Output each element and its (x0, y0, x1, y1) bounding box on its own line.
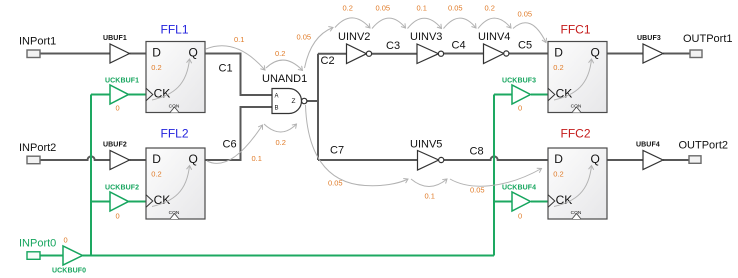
svg-text:0.1: 0.1 (425, 192, 435, 201)
svg-text:0.05: 0.05 (297, 32, 312, 41)
svg-text:C5: C5 (518, 40, 532, 52)
wire net C8: UINV5 to FFC2.D (hop over clock line) (444, 156, 548, 160)
svg-text:0.05: 0.05 (518, 10, 533, 19)
svg-text:UNAND1: UNAND1 (262, 73, 307, 85)
flip-flop FFC1 (548, 42, 607, 113)
svg-text:0.1: 0.1 (417, 4, 427, 13)
svg-text:INPort1: INPort1 (19, 36, 56, 48)
inverter UINV2 (347, 44, 367, 64)
svg-text:0.05: 0.05 (470, 186, 485, 195)
svg-text:UCKBUF4: UCKBUF4 (502, 185, 536, 192)
buffer UBUF1 (110, 44, 130, 63)
clock buffer UCKBUF0 (63, 246, 83, 265)
wire net C6: FFL2.Q to UNAND1.B (205, 107, 272, 160)
wire UCKBUF3 to FFC1.CK (531, 94, 548, 96)
svg-text:FFC1: FFC1 (561, 23, 591, 37)
svg-text:0.05: 0.05 (328, 179, 343, 188)
wire net C3: UINV2 to UINV3 (372, 53, 418, 55)
flip-flop FFC2 (548, 148, 607, 219)
svg-text:0: 0 (518, 104, 522, 113)
svg-text:FFC2: FFC2 (561, 127, 591, 141)
svg-text:0.2: 0.2 (485, 4, 495, 13)
timing arc 0.05 net C8 to FFC2.D (450, 169, 542, 187)
wire clock tap to UCKBUF2 (91, 201, 110, 203)
svg-text:C4: C4 (452, 40, 466, 52)
wire UCKBUF1 to FFL1.CK (129, 94, 147, 96)
timing arc 0.1 FFL2.Q to UNAND1.B (207, 125, 263, 163)
timing arc 0.2 UINV2 delay (335, 18, 370, 28)
wire net C1: FFL1.Q to UNAND1.A (205, 54, 272, 96)
svg-text:OUTPort1: OUTPort1 (683, 33, 733, 45)
wire INPort2 to UBUF2 (hop over clock line) (40, 156, 110, 160)
svg-text:C8: C8 (470, 146, 484, 158)
svg-text:FFL1: FFL1 (161, 23, 189, 37)
inverter UINV4 (484, 44, 504, 64)
timing arc 0.05 UNAND1.Z to UINV2 (305, 28, 334, 69)
svg-text:0.05: 0.05 (376, 4, 391, 13)
timing arc 0.2 UINV4 delay (478, 18, 511, 28)
svg-text:Z: Z (292, 98, 296, 105)
svg-text:INPort0: INPort0 (19, 238, 56, 250)
input port INPort1 (27, 50, 40, 58)
svg-text:UCKBUF2: UCKBUF2 (105, 185, 139, 192)
timing arc 0.05 net C4 (444, 18, 477, 28)
wire clock riser right (493, 95, 495, 256)
svg-text:0.1: 0.1 (234, 35, 244, 44)
timing arc 0.1 UINV5 delay (411, 179, 447, 187)
clock buffer UCKBUF1 (110, 85, 129, 104)
svg-text:UCKBUF1: UCKBUF1 (105, 78, 139, 85)
timing arc 0.2 UNAND1.B to Z (264, 124, 297, 132)
wire UCKBUF2 to FFL2.CK (129, 201, 147, 203)
svg-text:0.1: 0.1 (252, 154, 262, 163)
wire INPort1 to UBUF1 (40, 53, 110, 55)
wire UBUF2 to FFL2.D (130, 159, 147, 161)
timing arc 0.05 UNAND1.Z to UINV5 (306, 105, 409, 186)
wire UBUF4 to OUTPort2 (663, 159, 689, 161)
inverter UINV3 (417, 44, 439, 64)
svg-text:UBUF3: UBUF3 (637, 35, 661, 42)
wire UBUF1 to FFL1.D (130, 53, 147, 55)
svg-text:0: 0 (116, 104, 120, 113)
wire net C4: UINV3 to UINV4 (444, 53, 484, 55)
wire clock trunk horizontal (83, 255, 495, 257)
wire clock tap to UCKBUF3 (494, 94, 512, 96)
svg-text:C6: C6 (223, 139, 237, 151)
input port INPort0 (27, 252, 40, 259)
wire FFC2.Q to UBUF4 (607, 159, 643, 161)
svg-text:UINV2: UINV2 (338, 31, 370, 43)
timing arc 0.05 net C5 to FFC1.D (513, 23, 546, 43)
svg-text:UBUF2: UBUF2 (103, 142, 127, 149)
wire net C5: UINV4 to FFC1.D (509, 53, 548, 55)
svg-text:INPort2: INPort2 (19, 142, 56, 154)
svg-text:UINV5: UINV5 (410, 139, 442, 151)
clock buffer UCKBUF3 (512, 85, 531, 104)
clock buffer UCKBUF2 (110, 192, 129, 211)
timing arc 0.1 FFL1.Q to UNAND1.A (206, 46, 265, 70)
svg-text:0: 0 (518, 212, 522, 221)
wire clock tap to UCKBUF4 (494, 201, 512, 203)
output port OUTPort2 (689, 156, 701, 164)
svg-text:0.2: 0.2 (343, 4, 353, 13)
svg-text:OUTPort2: OUTPort2 (679, 139, 729, 151)
svg-text:0: 0 (64, 236, 68, 245)
NAND gate UNAND1 (272, 89, 302, 114)
svg-text:0.05: 0.05 (448, 4, 463, 13)
buffer UBUF2 (110, 151, 130, 170)
svg-text:UINV3: UINV3 (410, 31, 442, 43)
svg-text:UBUF1: UBUF1 (103, 35, 127, 42)
svg-text:A: A (275, 93, 279, 99)
wire clock riser left (90, 95, 92, 256)
svg-text:C7: C7 (330, 144, 344, 156)
svg-text:C2: C2 (321, 55, 335, 67)
wire UBUF3 to OUTPort1 (663, 53, 690, 55)
buffer UBUF3 (643, 44, 663, 63)
buffer UBUF4 (643, 151, 663, 170)
input port INPort2 (27, 156, 40, 164)
svg-text:UCKBUF3: UCKBUF3 (502, 78, 536, 85)
wire clock tap to UCKBUF1 (91, 94, 110, 96)
svg-text:0: 0 (116, 212, 120, 221)
wire INPort0 to UCKBUF0 (clock) (40, 255, 63, 257)
svg-text:UINV4: UINV4 (478, 31, 510, 43)
timing arc 0.1 UINV3 delay (408, 18, 442, 28)
output port OUTPort1 (690, 50, 702, 58)
svg-text:0.2: 0.2 (276, 138, 286, 147)
svg-text:FFL2: FFL2 (161, 127, 189, 141)
inverter UINV5 (418, 151, 439, 171)
svg-text:B: B (275, 106, 279, 112)
clock buffer UCKBUF4 (512, 192, 531, 211)
svg-text:UCKBUF0: UCKBUF0 (52, 268, 86, 275)
wire UNAND1.Z output to C2/C7 branch (307, 54, 318, 160)
flip-flop FFL2 (146, 148, 205, 219)
timing arc 0.05 net C3 (372, 18, 406, 28)
wire FFC1.Q to UBUF3 (607, 53, 643, 55)
svg-text:C1: C1 (219, 62, 233, 74)
wire UCKBUF4 to FFC2.CK (531, 201, 548, 203)
svg-text:C3: C3 (386, 40, 400, 52)
wire net C7: branch to UINV5 (318, 159, 418, 161)
timing arc 0.2 UNAND1.A to Z (266, 60, 303, 70)
svg-text:0.2: 0.2 (275, 49, 285, 58)
wire net C2 to UINV2 (318, 53, 347, 55)
svg-text:UBUF4: UBUF4 (636, 142, 660, 149)
flip-flop FFL1 (146, 42, 205, 113)
